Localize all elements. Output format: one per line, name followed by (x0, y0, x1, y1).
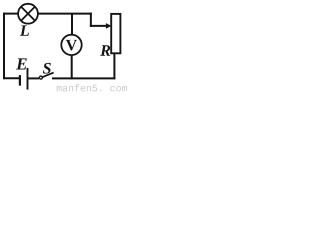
label L (20, 25, 29, 35)
wire voltmeter top branch (71, 13, 73, 35)
wire bottom (52, 77, 115, 79)
switch S (39, 73, 53, 80)
label E (16, 58, 27, 69)
voltmeter V (61, 35, 81, 55)
label S (43, 63, 51, 74)
wire left (3, 13, 5, 80)
wire voltmeter bottom branch (71, 55, 73, 79)
wire top-left stub (3, 13, 18, 15)
wire bottom-left (3, 77, 20, 79)
wire right vertical (113, 53, 115, 80)
wire top-right corner (90, 13, 92, 27)
battery E (20, 68, 28, 90)
watermark text (57, 84, 127, 91)
wire top (38, 13, 92, 15)
rheostat R (111, 14, 120, 53)
lamp L (18, 4, 38, 24)
label R (100, 45, 110, 55)
wire battery-to-switch (28, 77, 39, 79)
wiper arrow (90, 23, 112, 29)
